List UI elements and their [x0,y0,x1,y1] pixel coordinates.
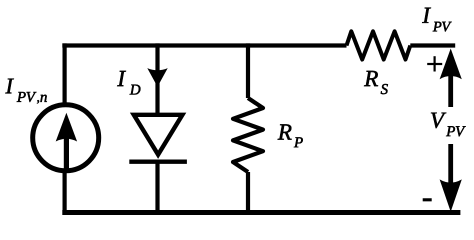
resistor RP (shunt) zigzag [233,98,263,172]
wire: Rp branch lower (resistor to bottom rail) [246,172,250,213]
current source IPV,n circle [33,105,99,171]
wire: diode branch lower (cathode to bottom rail) [155,162,159,213]
label ID (diode current) [117,71,140,95]
diode D cathode bar [129,159,187,163]
minus sign at negative terminal [423,198,432,201]
wire: diode branch upper (top wire to diode anode) [155,43,159,114]
label RS (series resistor) [364,71,388,94]
plus sign at positive terminal [427,56,442,71]
wire: left vertical upper (top node to current source) [62,43,66,105]
current arrow ID (down) on diode branch [147,68,167,87]
label VPV (output voltage) [431,113,466,137]
label IPV,n (current source) [5,79,46,104]
voltage arrow VPV upper (points up toward + terminal) [440,49,462,108]
label RP (shunt resistor) [278,124,303,147]
wire: bottom horizontal rail [62,210,460,215]
label IPV (output current) [422,8,451,32]
wire: left vertical lower (current source to bottom node) [62,171,66,213]
wire: top horizontal, left node to Rs [62,43,346,47]
voltage arrow VPV lower (points down toward - terminal) [440,144,462,212]
wire: Rs to positive output terminal [410,43,455,47]
wire: Rp branch upper (top wire to resistor) [246,43,250,98]
current source arrow (up) [56,113,77,170]
diode D triangle [134,115,183,155]
resistor RS (series) zigzag [347,31,411,59]
